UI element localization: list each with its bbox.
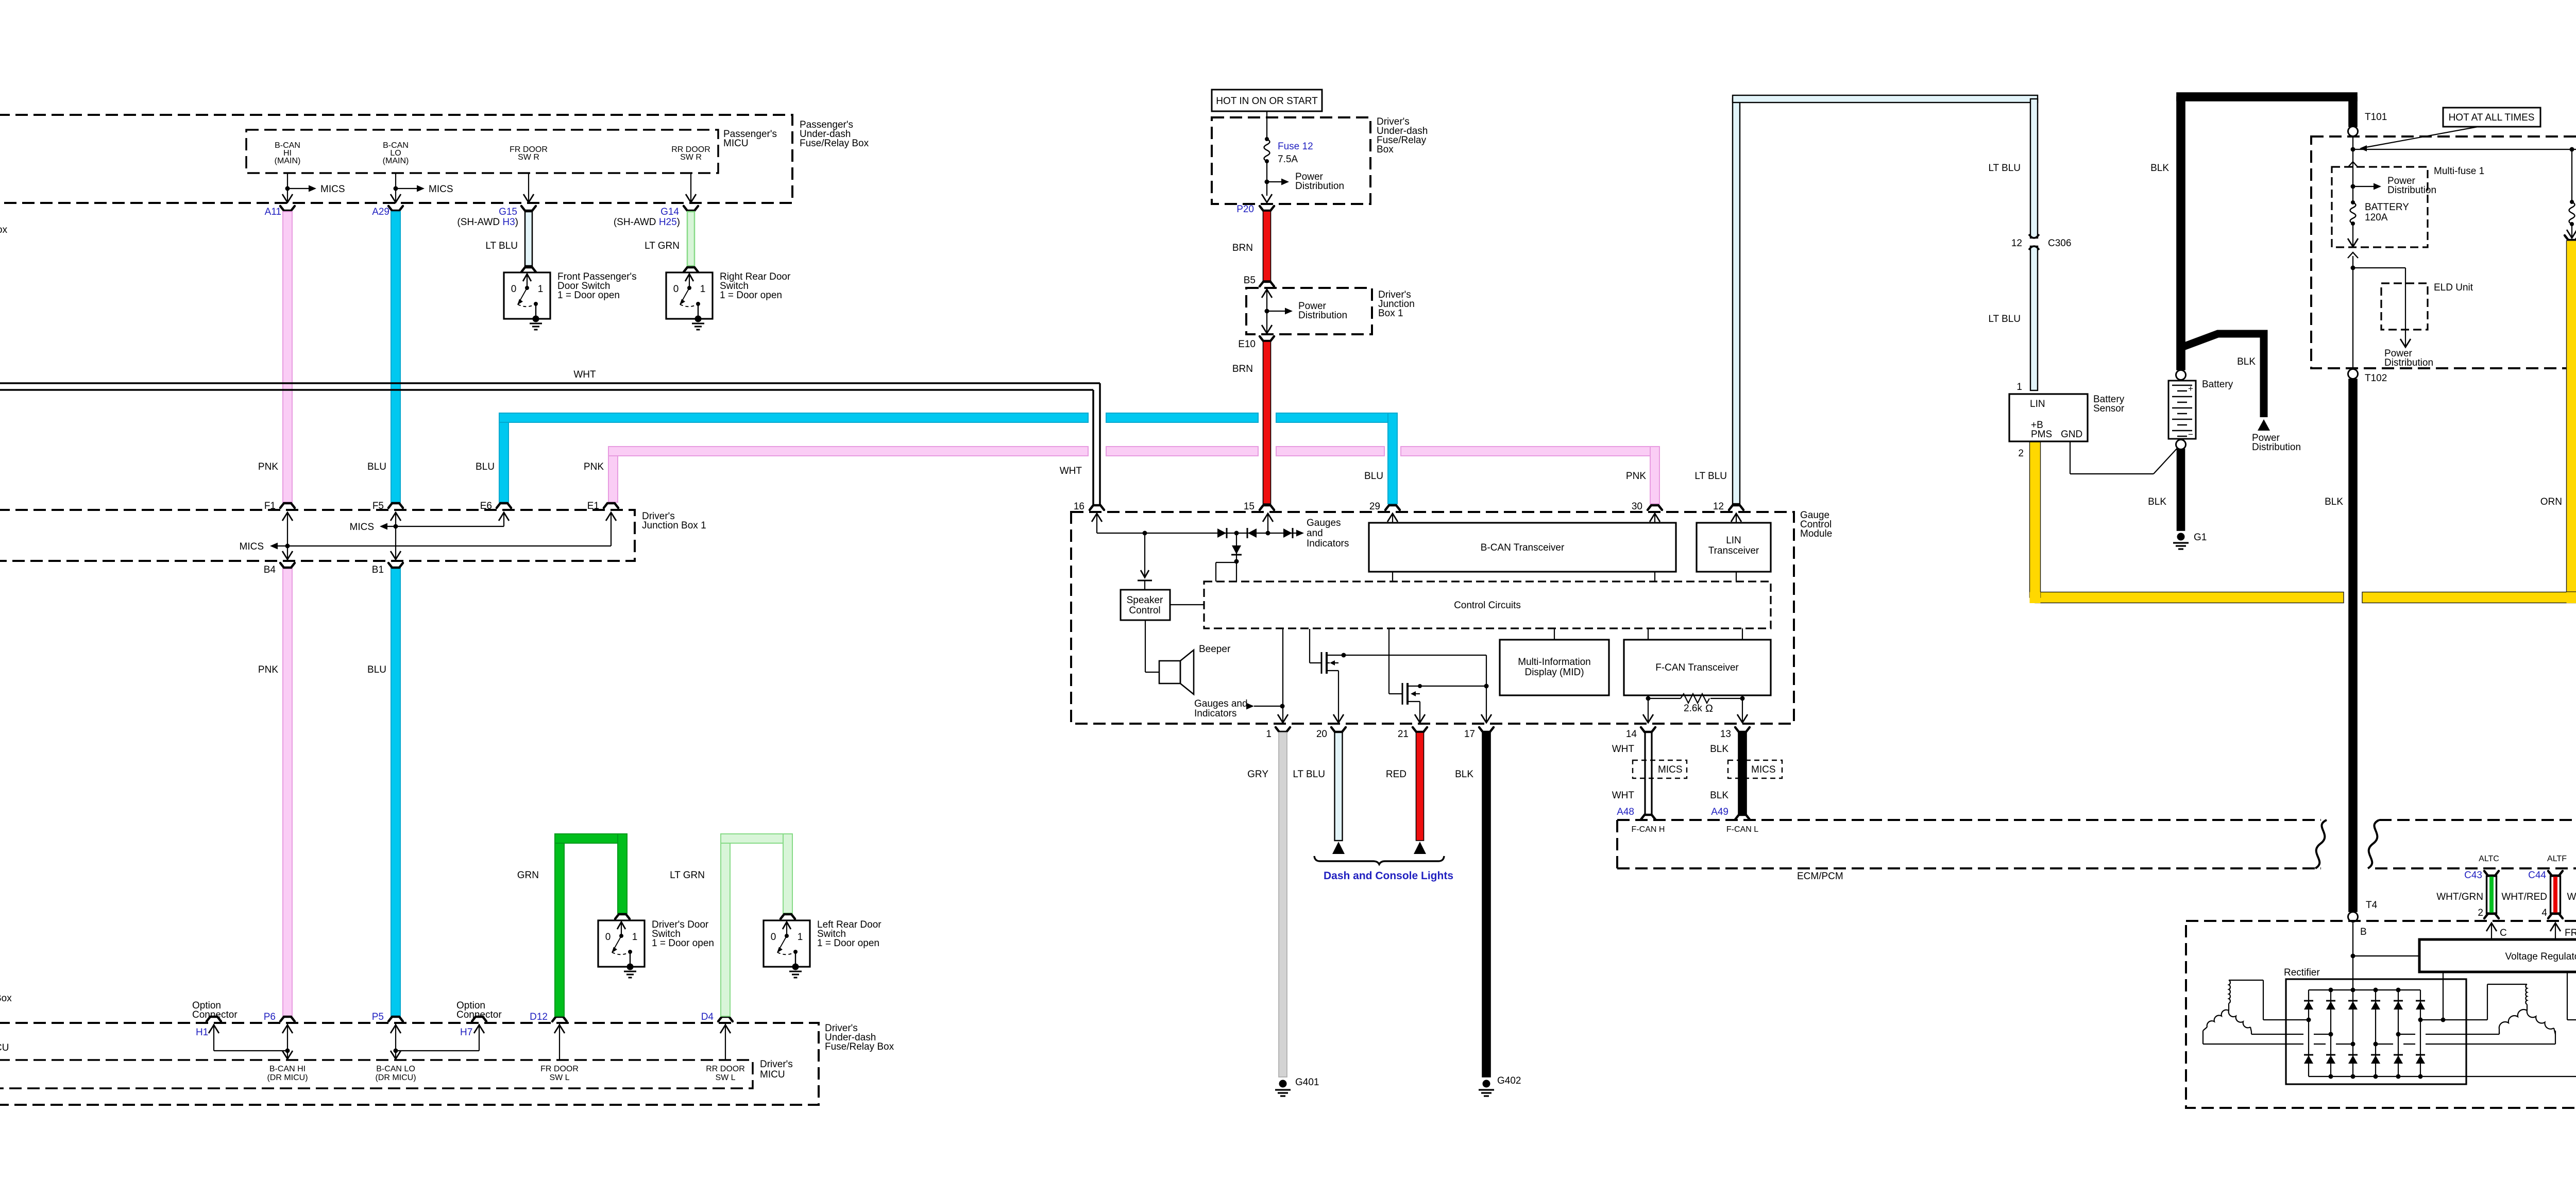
svg-text:B4: B4 xyxy=(264,565,276,575)
svg-text:Distribution: Distribution xyxy=(2252,442,2301,453)
svg-text:LT BLU: LT BLU xyxy=(1988,314,2021,324)
svg-text:PMS: PMS xyxy=(2031,429,2052,440)
svg-text:Connector: Connector xyxy=(456,1010,502,1020)
svg-text:H7: H7 xyxy=(460,1027,472,1038)
svg-text:MICU: MICU xyxy=(723,138,749,149)
svg-text:Multi-Information: Multi-Information xyxy=(1518,657,1591,668)
svg-text:T4: T4 xyxy=(2366,900,2378,911)
svg-text:4: 4 xyxy=(2541,908,2547,918)
svg-text:G14: G14 xyxy=(660,207,679,217)
svg-text:B1: B1 xyxy=(372,565,384,575)
svg-text:A48: A48 xyxy=(1617,807,1634,817)
svg-text:C44: C44 xyxy=(2528,870,2546,881)
svg-text:Gauges: Gauges xyxy=(1307,518,1341,528)
svg-text:PNK: PNK xyxy=(1626,471,1646,482)
svg-text:WHT/RED: WHT/RED xyxy=(2501,892,2547,902)
svg-text:14: 14 xyxy=(1626,729,1637,740)
svg-text:30: 30 xyxy=(1632,501,1642,512)
svg-text:HOT IN ON OR START: HOT IN ON OR START xyxy=(1216,96,1318,107)
svg-text:BRN: BRN xyxy=(1232,364,1253,374)
svg-text:ELD Unit: ELD Unit xyxy=(2434,282,2473,293)
svg-text:WHT/BLU: WHT/BLU xyxy=(2567,892,2576,902)
svg-text:BLK: BLK xyxy=(1710,790,1728,801)
svg-text:Rectifier: Rectifier xyxy=(2284,967,2320,978)
svg-text:Control: Control xyxy=(1129,605,1160,616)
svg-text:(SH-AWD H3): (SH-AWD H3) xyxy=(457,217,518,228)
svg-text:H1: H1 xyxy=(196,1027,208,1038)
svg-text:LT BLU: LT BLU xyxy=(1694,471,1727,482)
svg-text:SW L: SW L xyxy=(549,1073,569,1082)
svg-text:F-CAN H: F-CAN H xyxy=(1632,825,1665,834)
svg-text:P20: P20 xyxy=(1236,204,1254,215)
svg-text:F5: F5 xyxy=(372,501,384,511)
svg-text:WHT: WHT xyxy=(1612,744,1635,755)
svg-text:C306: C306 xyxy=(2048,238,2071,249)
svg-text:BLK: BLK xyxy=(2148,497,2166,507)
svg-text:B5: B5 xyxy=(1244,275,1256,286)
svg-text:0: 0 xyxy=(605,932,611,943)
svg-text:Indicators: Indicators xyxy=(1307,538,1349,549)
svg-text:ORN: ORN xyxy=(2540,497,2562,507)
svg-text:Distribution: Distribution xyxy=(2387,185,2436,196)
svg-text:PNK: PNK xyxy=(584,461,604,472)
svg-text:A11: A11 xyxy=(265,207,281,217)
svg-text:17: 17 xyxy=(1464,729,1475,740)
svg-text:MICS: MICS xyxy=(1658,764,1683,775)
svg-text:BLK: BLK xyxy=(2237,356,2256,367)
svg-text:Box: Box xyxy=(1377,144,1394,155)
svg-text:P5: P5 xyxy=(372,1012,384,1022)
svg-text:LT BLU: LT BLU xyxy=(1293,769,1325,780)
svg-text:B-CAN HI: B-CAN HI xyxy=(269,1065,306,1073)
svg-text:−: − xyxy=(2188,430,2193,439)
svg-text:Fuse/Relay Box: Fuse/Relay Box xyxy=(800,138,869,149)
svg-text:LT GRN: LT GRN xyxy=(670,870,705,881)
svg-text:1: 1 xyxy=(700,284,706,295)
svg-text:FR: FR xyxy=(2565,928,2576,938)
svg-text:BLU: BLU xyxy=(367,664,386,675)
svg-text:29: 29 xyxy=(1369,501,1380,512)
svg-text:BLK: BLK xyxy=(2325,497,2343,507)
svg-text:1: 1 xyxy=(538,284,544,295)
svg-text:Control Circuits: Control Circuits xyxy=(1454,600,1521,611)
svg-text:C: C xyxy=(2500,928,2507,938)
svg-text:Distribution: Distribution xyxy=(1295,181,1344,192)
svg-text:E6: E6 xyxy=(480,501,492,511)
svg-text:BLK: BLK xyxy=(1455,769,1473,780)
svg-text:Display (MID): Display (MID) xyxy=(1524,667,1584,678)
svg-text:(MAIN): (MAIN) xyxy=(275,157,301,165)
svg-text:120A: 120A xyxy=(2365,212,2388,223)
svg-text:D4: D4 xyxy=(701,1012,714,1022)
svg-text:E1: E1 xyxy=(587,501,599,511)
svg-text:CU: CU xyxy=(0,1042,9,1053)
svg-text:2: 2 xyxy=(2018,448,2024,459)
svg-text:15: 15 xyxy=(1244,501,1255,512)
svg-text:1: 1 xyxy=(632,932,638,943)
svg-text:7.5A: 7.5A xyxy=(1278,154,1298,165)
svg-text:13: 13 xyxy=(1720,729,1731,740)
svg-text:G1: G1 xyxy=(2194,532,2207,543)
svg-text:G15: G15 xyxy=(499,207,517,217)
svg-text:1 = Door open: 1 = Door open xyxy=(817,938,879,949)
svg-text:0: 0 xyxy=(511,284,517,295)
svg-text:LIN: LIN xyxy=(1726,535,1741,546)
svg-text:BLU: BLU xyxy=(367,461,386,472)
svg-text:1: 1 xyxy=(2016,382,2022,392)
svg-text:LT BLU: LT BLU xyxy=(1988,163,2021,174)
svg-text:(DR MICU): (DR MICU) xyxy=(375,1073,416,1082)
svg-text:BATTERY: BATTERY xyxy=(2365,202,2409,213)
svg-text:1 = Door open: 1 = Door open xyxy=(652,938,714,949)
svg-text:MICS: MICS xyxy=(240,541,264,552)
svg-text:F1: F1 xyxy=(264,501,276,511)
svg-text:ALTF: ALTF xyxy=(2547,854,2567,863)
svg-text:1: 1 xyxy=(798,932,803,943)
svg-text:RR DOOR: RR DOOR xyxy=(706,1065,745,1073)
svg-text:D12: D12 xyxy=(530,1012,548,1022)
svg-text:(SH-AWD H25): (SH-AWD H25) xyxy=(614,217,680,228)
svg-text:1 = Door open: 1 = Door open xyxy=(557,290,620,301)
svg-text:MICS: MICS xyxy=(320,184,345,195)
svg-text:WHT: WHT xyxy=(573,369,596,380)
svg-text:Gauges and: Gauges and xyxy=(1194,698,1248,709)
svg-text:2: 2 xyxy=(2478,908,2483,918)
svg-text:SW R: SW R xyxy=(518,153,539,162)
svg-text:Module: Module xyxy=(1800,528,1832,539)
svg-text:Ω: Ω xyxy=(1705,703,1713,714)
svg-text:MICS: MICS xyxy=(429,184,453,195)
svg-text:16: 16 xyxy=(1074,501,1084,512)
svg-text:Battery: Battery xyxy=(2202,379,2233,390)
svg-text:C43: C43 xyxy=(2464,870,2482,881)
svg-text:12: 12 xyxy=(1713,501,1724,512)
svg-text:Fuse 12: Fuse 12 xyxy=(1278,141,1313,152)
svg-text:ECM/PCM: ECM/PCM xyxy=(1797,871,1843,882)
svg-text:PNK: PNK xyxy=(258,461,278,472)
svg-text:20: 20 xyxy=(1316,729,1327,740)
svg-text:Speaker: Speaker xyxy=(1127,595,1163,606)
svg-text:B-CAN Transceiver: B-CAN Transceiver xyxy=(1481,542,1565,553)
svg-text:WHT/GRN: WHT/GRN xyxy=(2436,892,2483,902)
svg-text:ox: ox xyxy=(0,225,8,235)
svg-text:Fuse/Relay Box: Fuse/Relay Box xyxy=(825,1041,894,1052)
svg-text:1: 1 xyxy=(1266,729,1272,740)
svg-text:LT BLU: LT BLU xyxy=(485,241,518,251)
svg-text:Multi-fuse 1: Multi-fuse 1 xyxy=(2434,166,2484,177)
svg-text:Junction Box 1: Junction Box 1 xyxy=(642,520,706,531)
svg-text:BLU: BLU xyxy=(1364,471,1383,482)
svg-text:Connector: Connector xyxy=(192,1010,238,1020)
svg-text:2.6k: 2.6k xyxy=(1684,703,1702,714)
svg-text:F-CAN L: F-CAN L xyxy=(1726,825,1758,834)
svg-text:MICS: MICS xyxy=(350,522,375,533)
svg-text:12: 12 xyxy=(2011,238,2022,249)
svg-text:LIN: LIN xyxy=(2030,399,2045,409)
svg-text:G402: G402 xyxy=(1497,1075,1521,1086)
svg-text:ALTC: ALTC xyxy=(2479,854,2499,863)
svg-text:E10: E10 xyxy=(1238,339,1256,350)
svg-text:WHT: WHT xyxy=(1060,466,1082,476)
svg-text:and: and xyxy=(1307,528,1323,539)
svg-text:T102: T102 xyxy=(2365,373,2387,384)
svg-text:Indicators: Indicators xyxy=(1194,708,1236,719)
svg-text:SW R: SW R xyxy=(680,153,702,162)
svg-text:Beeper: Beeper xyxy=(1199,644,1231,655)
svg-text:HOT AT ALL TIMES: HOT AT ALL TIMES xyxy=(2449,112,2535,123)
svg-text:GRN: GRN xyxy=(517,870,539,881)
svg-text:A49: A49 xyxy=(1711,807,1728,817)
svg-text:MICS: MICS xyxy=(1751,764,1776,775)
svg-text:SW L: SW L xyxy=(715,1073,735,1082)
svg-text:Sensor: Sensor xyxy=(2093,403,2125,414)
svg-text:GRY: GRY xyxy=(1247,769,1268,780)
svg-text:21: 21 xyxy=(1398,729,1409,740)
svg-text:B-CAN LO: B-CAN LO xyxy=(376,1065,415,1073)
svg-text:F-CAN Transceiver: F-CAN Transceiver xyxy=(1655,662,1739,673)
svg-text:Transceiver: Transceiver xyxy=(1708,545,1759,556)
svg-text:GND: GND xyxy=(2061,429,2082,440)
svg-text:BRN: BRN xyxy=(1232,243,1253,253)
svg-text:PNK: PNK xyxy=(258,664,278,675)
svg-text:1 = Door open: 1 = Door open xyxy=(720,290,782,301)
svg-text:BLK: BLK xyxy=(1710,744,1728,755)
svg-text:Distribution: Distribution xyxy=(1298,310,1347,321)
svg-text:Distribution: Distribution xyxy=(2384,357,2433,368)
svg-text:WHT: WHT xyxy=(1612,790,1635,801)
svg-text:Box 1: Box 1 xyxy=(1378,308,1403,319)
svg-text:FR DOOR: FR DOOR xyxy=(540,1065,579,1073)
svg-text:(MAIN): (MAIN) xyxy=(383,157,409,165)
svg-text:MICU: MICU xyxy=(760,1069,785,1080)
svg-text:B: B xyxy=(2360,927,2367,937)
svg-text:RED: RED xyxy=(1386,769,1406,780)
svg-text:P6: P6 xyxy=(264,1012,276,1022)
svg-text:0: 0 xyxy=(771,932,776,943)
svg-text:Box: Box xyxy=(0,993,12,1004)
svg-text:G401: G401 xyxy=(1295,1077,1319,1088)
svg-text:LT GRN: LT GRN xyxy=(645,241,680,251)
svg-text:Dash and Console Lights: Dash and Console Lights xyxy=(1324,870,1453,882)
svg-text:BLU: BLU xyxy=(476,461,495,472)
svg-text:T101: T101 xyxy=(2365,112,2387,123)
svg-text:(DR MICU): (DR MICU) xyxy=(267,1073,308,1082)
svg-text:0: 0 xyxy=(673,284,679,295)
svg-text:BLK: BLK xyxy=(2150,163,2169,174)
svg-text:+: + xyxy=(2188,384,2193,394)
svg-text:Driver's: Driver's xyxy=(760,1059,793,1070)
svg-text:A29: A29 xyxy=(372,207,389,217)
svg-text:Voltage Regulator: Voltage Regulator xyxy=(2505,951,2576,962)
